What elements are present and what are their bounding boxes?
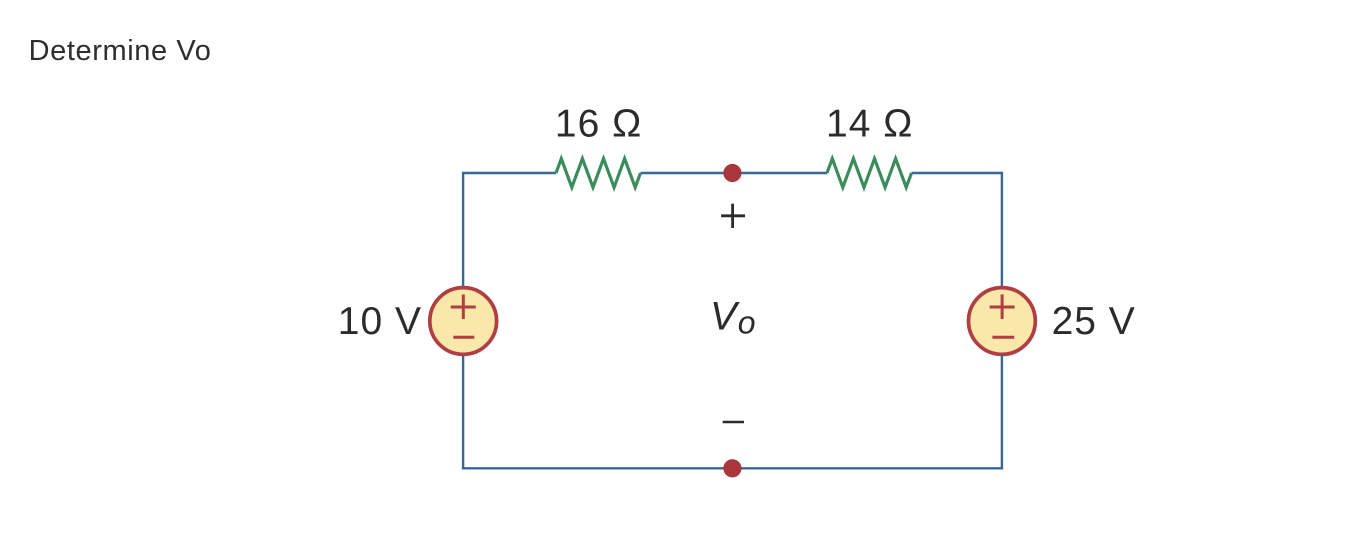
svg-text:10 V: 10 V: [338, 300, 422, 343]
svg-text:16 Ω: 16 Ω: [555, 103, 642, 146]
svg-text:14 Ω: 14 Ω: [826, 103, 913, 146]
svg-text:25 V: 25 V: [1052, 300, 1136, 343]
svg-text:Determine Vo: Determine Vo: [29, 35, 212, 67]
